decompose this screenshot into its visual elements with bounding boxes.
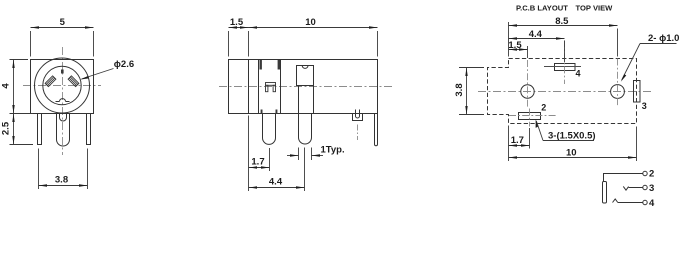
svg-text:4.4: 4.4 [269, 176, 283, 187]
svg-text:1Typ.: 1Typ. [321, 144, 345, 155]
svg-text:10: 10 [566, 148, 577, 159]
hole right vertical centerline [617, 59, 619, 108]
top contact tick [61, 70, 64, 74]
svg-text:2: 2 [649, 169, 654, 180]
centerline horizontal front view [23, 85, 101, 87]
latch clip [266, 83, 276, 92]
svg-text:1.5: 1.5 [230, 17, 244, 28]
centerline vertical front view [62, 47, 64, 155]
pin3 side leg (right edge) [375, 114, 378, 146]
bottom contact bump [56, 99, 70, 102]
svg-text:3.8: 3.8 [454, 83, 465, 96]
dimension 3.8 (pcb left) [459, 68, 484, 115]
svg-text:4: 4 [649, 198, 655, 209]
dimension 4.4 (pcb) [509, 39, 565, 63]
hole right [611, 85, 625, 99]
pad 2 [519, 113, 541, 120]
right leg (front) [87, 114, 91, 145]
svg-text:1.7: 1.7 [251, 157, 264, 168]
dimension 4 (front left) [10, 60, 34, 114]
dimension 10 (side top) [249, 28, 378, 57]
hole left vertical centerline [527, 60, 529, 107]
terminal 3 circle [643, 185, 647, 189]
terminal 4 circle [643, 200, 647, 204]
wire pin2 [604, 174, 643, 182]
dimension 3.8 (front bottom) [39, 149, 88, 190]
wire pin3 [629, 187, 643, 189]
cavity wall right [280, 60, 282, 114]
svg-text:4: 4 [1, 83, 12, 89]
leg1 (side) [263, 114, 276, 145]
flange line [248, 60, 250, 114]
svg-text:3: 3 [642, 101, 647, 111]
dimension 1.5 (side top) [229, 28, 249, 57]
leg2 (side, through body) [299, 86, 312, 145]
svg-text:3.8: 3.8 [55, 175, 68, 186]
thick top marks [260, 60, 262, 70]
center pin bar [603, 182, 607, 204]
centerline horizontal side view [219, 86, 392, 88]
svg-text:2: 2 [541, 103, 546, 113]
cavity wall left [258, 60, 260, 114]
left contact slot (hatched) [45, 76, 56, 87]
dimension 1.5 (pcb) [509, 46, 528, 58]
jack body square (front) [31, 60, 94, 114]
leg1 shoulders [261, 110, 263, 114]
svg-text:4.4: 4.4 [529, 29, 543, 40]
center pin (front, below body) [57, 114, 70, 147]
outer barrel circle [35, 58, 90, 113]
left leg (front) [38, 114, 42, 145]
svg-text:1.7: 1.7 [511, 135, 524, 146]
svg-text:2.5: 2.5 [1, 121, 12, 135]
spring contact pin4 [613, 199, 618, 203]
svg-text:8.5: 8.5 [555, 16, 569, 27]
svg-text:10: 10 [305, 17, 316, 28]
wire pin4 [618, 202, 643, 204]
terminal 2 circle [643, 171, 647, 175]
dimension 1.7 (pcb bottom) [509, 126, 530, 162]
side body outline [229, 60, 378, 114]
pin4 centerline [357, 125, 359, 141]
svg-text:ϕ2.6: ϕ2.6 [114, 59, 134, 70]
svg-text:5: 5 [60, 17, 66, 28]
pin4 tab (side) [353, 110, 363, 121]
svg-text:1.5: 1.5 [508, 40, 522, 51]
svg-text:4: 4 [576, 69, 581, 79]
svg-text:2- ϕ1.0: 2- ϕ1.0 [648, 33, 679, 44]
pad 4 [555, 64, 576, 71]
switch contact pin3 [623, 186, 628, 190]
svg-text:TOP VIEW: TOP VIEW [576, 4, 614, 13]
pad 3 [634, 81, 641, 103]
dimension 4.4 (side bottom) [249, 148, 305, 192]
dimension 5 (front top) [31, 28, 94, 57]
inner bore circle [43, 66, 81, 104]
pcb horizontal centerline [478, 91, 653, 93]
pcb outline dashed [488, 59, 637, 124]
pin3 contact block [297, 66, 314, 86]
hole left [521, 85, 534, 98]
svg-text:P.C.B LAYOUT: P.C.B LAYOUT [516, 4, 568, 13]
right contact slot (hatched) [68, 76, 79, 87]
svg-text:3: 3 [649, 183, 654, 194]
dimension 1.7 (side bottom) [249, 116, 270, 192]
dimension 8.5 (pcb) [509, 22, 618, 57]
dimension 2.5 (front lower-left) [10, 114, 34, 145]
svg-text:3-(1.5X0.5): 3-(1.5X0.5) [548, 131, 596, 142]
dimension 10 (pcb bottom) [509, 127, 637, 162]
